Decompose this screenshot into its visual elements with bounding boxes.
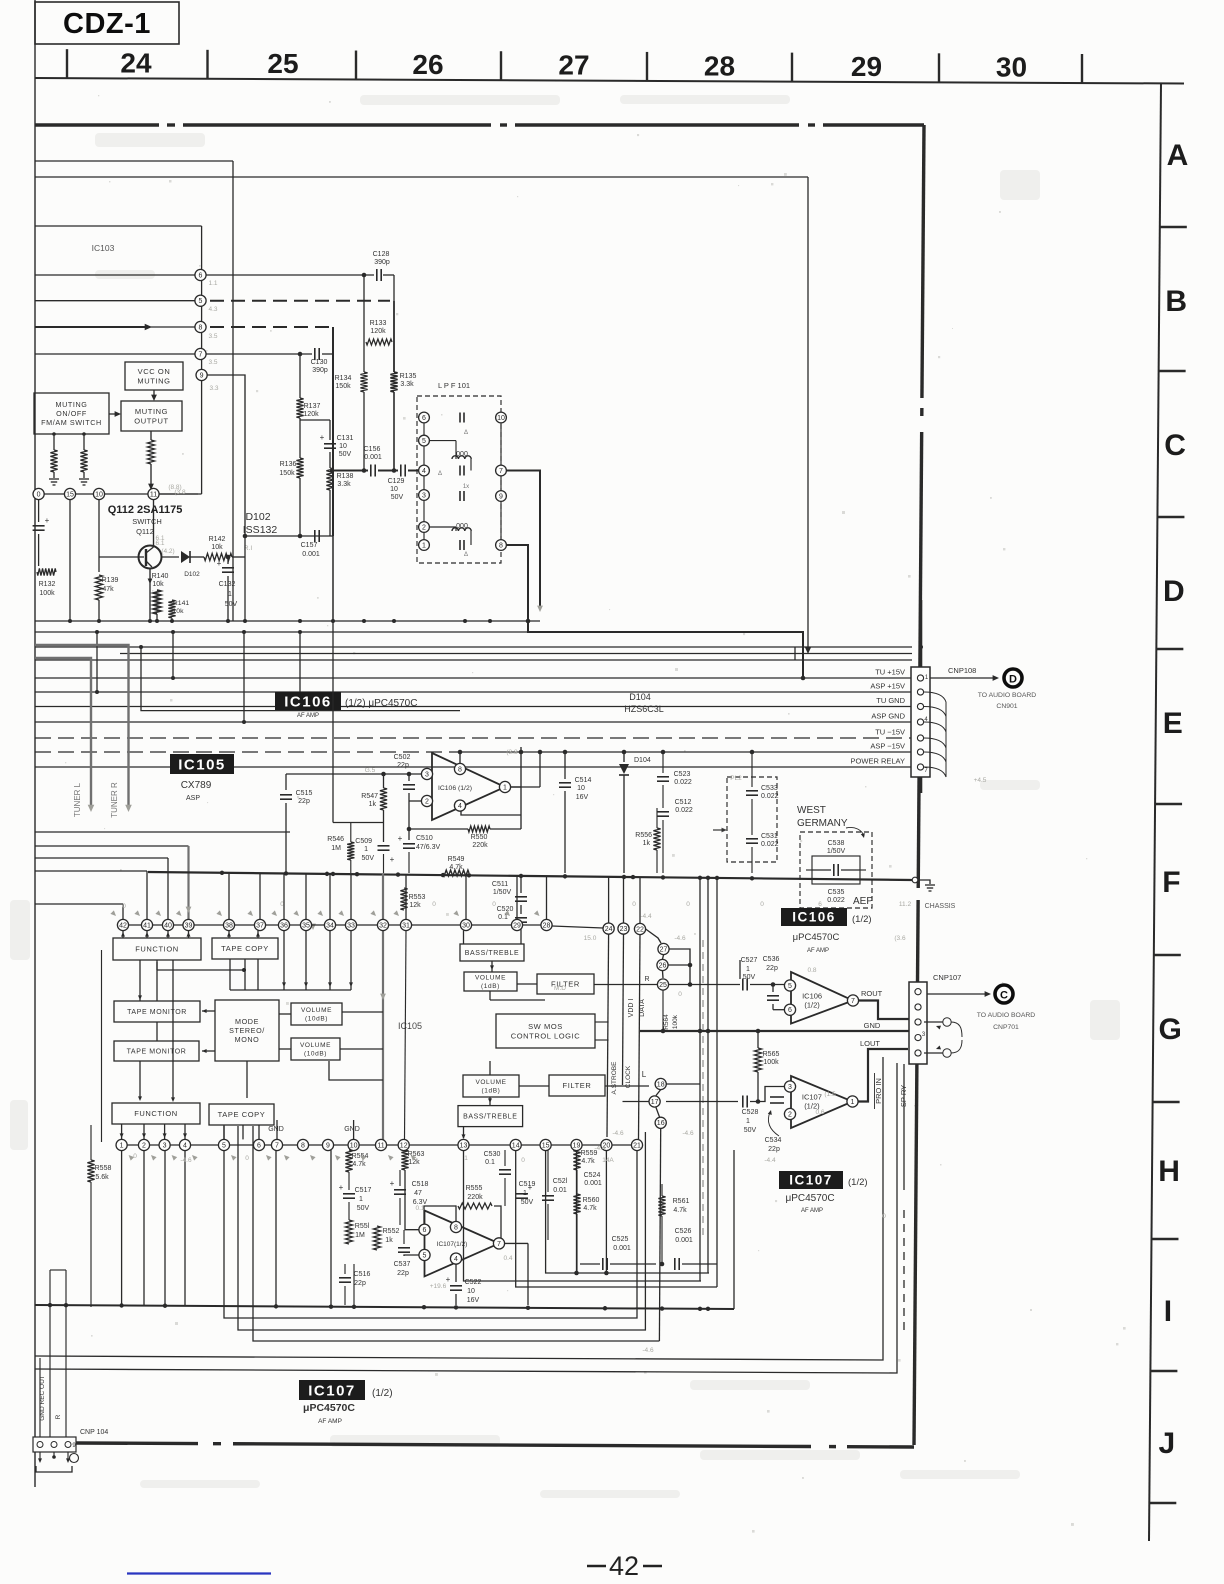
- svg-text:R140: R140: [152, 573, 169, 580]
- svg-text:GERMANY: GERMANY: [797, 818, 848, 829]
- svg-text:R556: R556: [635, 832, 652, 839]
- svg-text:0.022: 0.022: [674, 779, 692, 786]
- svg-text:27: 27: [558, 50, 589, 81]
- svg-text:FILTER: FILTER: [563, 1081, 592, 1090]
- svg-text:MODE: MODE: [235, 1017, 259, 1026]
- svg-text:TAPE MONITOR: TAPE MONITOR: [127, 1009, 187, 1016]
- svg-text:3: 3: [788, 1084, 792, 1091]
- svg-text:F: F: [1162, 866, 1180, 899]
- svg-text:50V: 50V: [744, 1127, 757, 1134]
- svg-text:24: 24: [605, 926, 613, 933]
- svg-text:R552: R552: [383, 1228, 400, 1235]
- svg-text:HZS6C3L: HZS6C3L: [624, 704, 664, 714]
- svg-text:0.01: 0.01: [553, 1187, 567, 1194]
- svg-text:42: 42: [609, 1551, 639, 1581]
- svg-text:Δ: Δ: [464, 430, 468, 436]
- svg-text:41: 41: [143, 922, 151, 929]
- svg-text:5.6k: 5.6k: [95, 1174, 109, 1181]
- svg-text:10: 10: [467, 1288, 475, 1295]
- svg-text:22p: 22p: [397, 762, 409, 769]
- svg-text:0.001: 0.001: [613, 1245, 631, 1252]
- svg-text:37: 37: [256, 922, 264, 929]
- svg-text:VOLUME: VOLUME: [301, 1007, 332, 1014]
- svg-text:C502: C502: [394, 754, 411, 761]
- svg-text:MUTING: MUTING: [56, 400, 88, 409]
- svg-text:1/50V: 1/50V: [493, 889, 512, 896]
- svg-text:50V: 50V: [225, 601, 238, 608]
- svg-text:+: +: [320, 433, 325, 442]
- svg-text:100k: 100k: [39, 590, 55, 597]
- svg-text:3: 3: [163, 1142, 167, 1149]
- svg-text:50V: 50V: [339, 451, 352, 458]
- svg-text:POWER RELAY: POWER RELAY: [851, 757, 905, 766]
- svg-text:C535: C535: [828, 889, 845, 896]
- svg-text:CHASSIS: CHASSIS: [925, 903, 956, 910]
- svg-text:G: G: [1159, 1013, 1182, 1046]
- svg-text:G.5: G.5: [365, 767, 376, 774]
- svg-text:AF AMP: AF AMP: [297, 713, 319, 719]
- svg-text:FM/AM SWITCH: FM/AM SWITCH: [41, 418, 102, 427]
- svg-text:0.022: 0.022: [827, 897, 845, 904]
- svg-text:8: 8: [458, 766, 462, 773]
- svg-text:R550: R550: [471, 834, 488, 841]
- svg-text:TU GND: TU GND: [876, 696, 905, 705]
- svg-text:TAPE COPY: TAPE COPY: [221, 944, 269, 953]
- svg-text:(1dB): (1dB): [481, 983, 500, 990]
- svg-text:C517: C517: [355, 1187, 372, 1194]
- svg-text:1x: 1x: [463, 484, 469, 490]
- svg-text:150k: 150k: [279, 470, 295, 477]
- svg-text:C537: C537: [394, 1261, 411, 1268]
- svg-text:10: 10: [497, 415, 505, 422]
- svg-text:I: I: [1164, 1295, 1172, 1328]
- svg-text:1: 1: [464, 1155, 468, 1162]
- svg-text:16V: 16V: [576, 794, 589, 801]
- svg-text:39: 39: [185, 922, 193, 929]
- svg-text:(1/2): (1/2): [804, 1001, 820, 1010]
- svg-text:9: 9: [200, 372, 204, 379]
- svg-text:22p: 22p: [766, 965, 778, 972]
- svg-text:-4.6: -4.6: [682, 1130, 694, 1137]
- svg-text:22p: 22p: [298, 798, 310, 805]
- svg-text:1: 1: [746, 966, 750, 973]
- svg-text:5: 5: [423, 1252, 427, 1259]
- svg-text:19: 19: [573, 1142, 581, 1149]
- svg-text:Δ: Δ: [438, 471, 442, 477]
- svg-text:50V: 50V: [362, 855, 375, 862]
- svg-text:(10dB): (10dB): [305, 1015, 328, 1022]
- svg-text:0.1: 0.1: [498, 914, 508, 921]
- svg-text:ON/OFF: ON/OFF: [56, 409, 87, 418]
- svg-text:C526: C526: [675, 1228, 692, 1235]
- svg-text:R138: R138: [337, 473, 354, 480]
- svg-text:1k: 1k: [385, 1237, 393, 1244]
- svg-text:22p: 22p: [768, 1146, 780, 1153]
- svg-text:SW MOS: SW MOS: [528, 1022, 563, 1031]
- svg-text:R133: R133: [370, 320, 387, 327]
- svg-text:9: 9: [326, 1142, 330, 1149]
- svg-text:3.3: 3.3: [209, 385, 218, 392]
- svg-text:ISS132: ISS132: [243, 524, 278, 536]
- svg-text:31: 31: [402, 922, 410, 929]
- svg-text:IC106: IC106: [802, 992, 822, 1001]
- svg-text:10: 10: [350, 1142, 358, 1149]
- svg-text:3.5: 3.5: [208, 333, 217, 340]
- svg-text:TAPE COPY: TAPE COPY: [218, 1110, 266, 1119]
- svg-text:7: 7: [851, 998, 855, 1005]
- svg-text:R141: R141: [173, 600, 189, 607]
- svg-text:21: 21: [633, 1142, 641, 1149]
- svg-text:AF AMP: AF AMP: [801, 1208, 823, 1214]
- svg-text:GND: GND: [344, 1126, 360, 1133]
- svg-text:40: 40: [164, 922, 172, 929]
- svg-text:FUNCTION: FUNCTION: [135, 945, 179, 954]
- svg-text:C510: C510: [416, 835, 433, 842]
- svg-text:10: 10: [339, 443, 347, 450]
- svg-text:R554: R554: [352, 1153, 369, 1160]
- svg-text:(1.5: (1.5: [824, 1091, 836, 1098]
- svg-text:C512: C512: [675, 799, 692, 806]
- svg-text:3.3k: 3.3k: [400, 381, 414, 388]
- svg-text:BASS/TREBLE: BASS/TREBLE: [465, 950, 519, 957]
- svg-text:6.1: 6.1: [155, 535, 164, 542]
- svg-text:4.7k: 4.7k: [352, 1161, 366, 1168]
- svg-text:10k: 10k: [173, 608, 185, 615]
- svg-text:VOLUME: VOLUME: [475, 1079, 506, 1086]
- svg-text:μPC4570C: μPC4570C: [785, 1193, 834, 1204]
- svg-text:5: 5: [422, 438, 426, 445]
- svg-text:-4.6: -4.6: [612, 1130, 624, 1137]
- svg-text:R135: R135: [400, 373, 417, 380]
- svg-text:(1/2): (1/2): [372, 1388, 393, 1399]
- svg-text:0: 0: [280, 901, 284, 908]
- svg-text:ROUT: ROUT: [861, 989, 883, 998]
- svg-text:C534: C534: [765, 1137, 782, 1144]
- svg-text:+: +: [398, 834, 403, 843]
- svg-text:50V: 50V: [357, 1205, 370, 1212]
- svg-text:IC105: IC105: [398, 1021, 422, 1031]
- svg-text:C516: C516: [354, 1271, 371, 1278]
- svg-text:C519: C519: [519, 1181, 536, 1188]
- svg-text:6: 6: [788, 1007, 792, 1014]
- svg-text:VDD I: VDD I: [628, 999, 635, 1018]
- svg-text:C514: C514: [575, 777, 592, 784]
- svg-text:4: 4: [458, 803, 462, 810]
- svg-text:-4.4: -4.4: [640, 913, 652, 920]
- svg-text:11: 11: [150, 491, 157, 498]
- svg-text:0: 0: [37, 491, 41, 498]
- svg-text:4.7k: 4.7k: [673, 1207, 687, 1214]
- svg-text:4.7k: 4.7k: [583, 1205, 597, 1212]
- svg-text:2: 2: [142, 1142, 146, 1149]
- svg-text:29: 29: [851, 51, 882, 82]
- svg-text:15: 15: [542, 1142, 550, 1149]
- svg-text:+4.5: +4.5: [974, 777, 987, 784]
- svg-text:C156: C156: [364, 446, 381, 453]
- svg-text:0: 0: [760, 901, 764, 908]
- svg-text:9: 9: [499, 493, 503, 500]
- svg-text:50V: 50V: [391, 494, 404, 501]
- svg-text:μPC4570C: μPC4570C: [303, 1402, 355, 1414]
- svg-text:(3.6: (3.6: [894, 935, 906, 942]
- svg-text:0.1: 0.1: [485, 1159, 495, 1166]
- svg-text:1: 1: [746, 1118, 750, 1125]
- svg-text:100k: 100k: [672, 1014, 679, 1029]
- svg-text:B: B: [1165, 285, 1187, 318]
- svg-text:1: 1: [364, 846, 368, 853]
- svg-text:14: 14: [512, 1142, 520, 1149]
- svg-text:47k: 47k: [102, 586, 114, 593]
- svg-text:Q112: Q112: [136, 527, 154, 536]
- svg-text:R558: R558: [95, 1165, 112, 1172]
- svg-text:390p: 390p: [374, 259, 390, 266]
- svg-text:R546: R546: [327, 836, 344, 843]
- svg-text:CNP701: CNP701: [993, 1024, 1019, 1031]
- svg-text:000: 000: [456, 451, 468, 458]
- svg-text:VCC ON: VCC ON: [138, 367, 171, 376]
- svg-text:CNP108: CNP108: [948, 666, 976, 675]
- svg-text:H: H: [1158, 1155, 1180, 1188]
- svg-text:15: 15: [66, 491, 74, 498]
- svg-text:C: C: [1000, 990, 1008, 1002]
- svg-text:5: 5: [199, 298, 203, 305]
- svg-text:17: 17: [651, 1099, 659, 1106]
- svg-text:(4.2): (4.2): [161, 548, 174, 555]
- svg-text:GND: GND: [268, 1126, 284, 1133]
- svg-text:TU −15V: TU −15V: [875, 728, 905, 737]
- svg-text:R55l: R55l: [355, 1223, 370, 1230]
- svg-text:-4.6: -4.6: [642, 1347, 654, 1354]
- svg-text:(1/2) μPC4570C: (1/2) μPC4570C: [345, 698, 417, 709]
- svg-text:ASP −15V: ASP −15V: [870, 742, 905, 751]
- svg-text:0.8: 0.8: [807, 967, 816, 974]
- svg-text:C130: C130: [311, 359, 328, 366]
- svg-text:+: +: [390, 855, 395, 864]
- svg-text:C129: C129: [388, 478, 405, 485]
- svg-text:CDZ-1: CDZ-1: [63, 8, 151, 40]
- svg-text:C132: C132: [219, 581, 236, 588]
- svg-text:(3.8: (3.8: [506, 749, 518, 756]
- svg-text:1/50V: 1/50V: [827, 848, 846, 855]
- svg-text:IC103: IC103: [92, 243, 115, 253]
- svg-text:C524: C524: [584, 1172, 601, 1179]
- svg-text:0.4: 0.4: [503, 1255, 512, 1262]
- svg-text:7: 7: [497, 1241, 501, 1248]
- svg-text:18: 18: [657, 1081, 665, 1088]
- svg-text:C528: C528: [742, 1109, 759, 1116]
- svg-text:C520: C520: [497, 906, 514, 913]
- svg-text:0: 0: [245, 1155, 249, 1162]
- svg-text:D102: D102: [245, 511, 270, 523]
- svg-text:TUNER L: TUNER L: [73, 782, 82, 817]
- svg-text:R547: R547: [361, 793, 378, 800]
- svg-text:0.001: 0.001: [302, 551, 320, 558]
- svg-text:1: 1: [359, 1196, 363, 1203]
- svg-text:0.022: 0.022: [675, 807, 693, 814]
- svg-text:M.D: M.D: [554, 985, 566, 992]
- svg-text:ASP GND: ASP GND: [871, 712, 905, 721]
- svg-text:L: L: [642, 1070, 647, 1079]
- svg-text:IC106 (1/2): IC106 (1/2): [438, 785, 472, 792]
- svg-text:PRO IN: PRO IN: [874, 1078, 883, 1104]
- svg-text:R553: R553: [409, 894, 426, 901]
- svg-text:μPC4570C: μPC4570C: [793, 932, 840, 943]
- svg-text:3.3k: 3.3k: [337, 481, 351, 488]
- svg-text:TO AUDIO BOARD: TO AUDIO BOARD: [978, 692, 1037, 699]
- svg-text:5: 5: [788, 983, 792, 990]
- svg-text:0.1: 0.1: [415, 1205, 424, 1212]
- svg-text:3.5: 3.5: [208, 359, 217, 366]
- svg-text:1: 1: [523, 1190, 527, 1197]
- svg-text:ASP: ASP: [186, 795, 200, 802]
- svg-text:AEP: AEP: [853, 896, 873, 907]
- svg-text:25: 25: [267, 48, 298, 79]
- svg-text:47/6.3V: 47/6.3V: [416, 844, 440, 851]
- svg-text:-4.4: -4.4: [764, 1157, 776, 1164]
- svg-text:27: 27: [660, 946, 668, 953]
- svg-text:CONTROL LOGIC: CONTROL LOGIC: [511, 1031, 581, 1040]
- svg-text:0: 0: [521, 1157, 525, 1164]
- svg-text:R563: R563: [408, 1151, 425, 1158]
- svg-text:C128: C128: [373, 251, 390, 258]
- svg-text:4.3: 4.3: [208, 306, 217, 313]
- svg-text:12k: 12k: [408, 1159, 420, 1166]
- svg-text:390p: 390p: [312, 367, 328, 374]
- svg-text:35: 35: [302, 922, 310, 929]
- svg-text:26: 26: [659, 962, 667, 969]
- svg-text:7: 7: [275, 1142, 279, 1149]
- svg-text:30: 30: [462, 922, 470, 929]
- svg-text:R132: R132: [39, 581, 56, 588]
- svg-text:D104: D104: [629, 692, 651, 702]
- svg-text:220k: 220k: [467, 1194, 483, 1201]
- svg-text:0.6: 0.6: [815, 1109, 824, 1116]
- svg-text:1k: 1k: [643, 840, 651, 847]
- svg-text:8: 8: [301, 1142, 305, 1149]
- svg-text:0: 0: [678, 991, 682, 998]
- svg-text:C522: C522: [465, 1279, 482, 1286]
- svg-text:C515: C515: [296, 790, 313, 797]
- svg-text:12k: 12k: [409, 902, 421, 909]
- svg-text:22p: 22p: [397, 1270, 409, 1277]
- svg-text:R: R: [55, 1414, 62, 1419]
- svg-text:STEREO/: STEREO/: [229, 1026, 265, 1035]
- svg-text:R555: R555: [466, 1185, 483, 1192]
- svg-text:6: 6: [199, 272, 203, 279]
- svg-text:22p: 22p: [354, 1280, 366, 1287]
- svg-text:26: 26: [412, 49, 443, 80]
- svg-text:R136: R136: [280, 461, 297, 468]
- svg-text:24: 24: [120, 47, 152, 78]
- svg-text:TUNER R: TUNER R: [110, 782, 119, 818]
- svg-text:3: 3: [422, 492, 426, 499]
- svg-text:16V: 16V: [467, 1297, 480, 1304]
- svg-text:220k: 220k: [472, 842, 488, 849]
- svg-text:C527: C527: [741, 957, 758, 964]
- svg-text:C: C: [1164, 429, 1186, 462]
- svg-text:R139: R139: [102, 577, 119, 584]
- svg-text:R137: R137: [304, 403, 321, 410]
- svg-text:D: D: [1163, 575, 1185, 608]
- svg-text:R564: R564: [663, 1014, 670, 1030]
- svg-text:1: 1: [503, 784, 507, 791]
- svg-text:22: 22: [636, 926, 644, 933]
- svg-text:28: 28: [704, 50, 735, 81]
- svg-text:IC107: IC107: [802, 1093, 822, 1102]
- svg-text:E: E: [1163, 707, 1183, 740]
- svg-text:0: 0: [882, 1213, 886, 1220]
- svg-text:IC107: IC107: [789, 1173, 833, 1188]
- svg-text:C509: C509: [355, 838, 372, 845]
- svg-text:10: 10: [390, 486, 398, 493]
- svg-text:Q112 2SA1175: Q112 2SA1175: [108, 504, 183, 516]
- svg-text:C536: C536: [763, 956, 780, 963]
- svg-text:1: 1: [228, 591, 232, 598]
- svg-text:11: 11: [377, 1142, 384, 1149]
- svg-text:+: +: [217, 559, 222, 568]
- svg-text:0.022: 0.022: [761, 841, 779, 848]
- svg-text:+: +: [339, 1183, 344, 1192]
- svg-text:FUNCTION: FUNCTION: [134, 1109, 178, 1118]
- svg-text:-4.6: -4.6: [674, 935, 686, 942]
- svg-text:C533: C533: [761, 785, 778, 792]
- svg-text:R561: R561: [673, 1198, 690, 1205]
- svg-text:12: 12: [400, 1142, 408, 1149]
- svg-text:R565: R565: [763, 1051, 780, 1058]
- svg-text:C530: C530: [484, 1151, 501, 1158]
- svg-text:D104: D104: [634, 757, 651, 764]
- svg-text:SWITCH: SWITCH: [132, 517, 162, 526]
- svg-text:4.7k: 4.7k: [581, 1158, 595, 1165]
- svg-text:MONO: MONO: [235, 1035, 260, 1044]
- svg-text:4.7k: 4.7k: [449, 864, 463, 871]
- svg-text:10k: 10k: [211, 544, 223, 551]
- svg-text:0.001: 0.001: [675, 1237, 693, 1244]
- svg-text:150k: 150k: [335, 383, 351, 390]
- svg-text:10k: 10k: [152, 581, 164, 588]
- svg-text:C538: C538: [828, 840, 845, 847]
- svg-text:CNP 104: CNP 104: [80, 1429, 108, 1436]
- svg-text:8: 8: [199, 324, 203, 331]
- svg-text:+: +: [446, 1275, 451, 1284]
- svg-text:15.0: 15.0: [584, 935, 597, 942]
- svg-text:A.STROBE: A.STROBE: [611, 1061, 618, 1095]
- svg-text:4: 4: [454, 1256, 458, 1263]
- svg-text:1: 1: [851, 1099, 855, 1106]
- svg-text:AF AMP: AF AMP: [318, 1418, 342, 1425]
- svg-text:1: 1: [422, 542, 426, 549]
- svg-text:CNP107: CNP107: [933, 973, 961, 982]
- svg-text:R142: R142: [209, 536, 226, 543]
- svg-text:29: 29: [513, 922, 521, 929]
- svg-text:+19.6: +19.6: [430, 1283, 447, 1290]
- svg-text:100k: 100k: [763, 1059, 779, 1066]
- svg-text:28: 28: [543, 922, 551, 929]
- svg-text:25: 25: [659, 982, 667, 989]
- svg-text:6: 6: [257, 1142, 261, 1149]
- svg-text:32: 32: [379, 922, 387, 929]
- svg-text:1k: 1k: [369, 801, 377, 808]
- svg-text:+: +: [390, 1179, 395, 1188]
- svg-text:GND: GND: [864, 1021, 881, 1030]
- svg-text:0: 0: [133, 1153, 137, 1160]
- svg-text:IC105: IC105: [178, 757, 226, 774]
- svg-text:7: 7: [199, 351, 203, 358]
- svg-text:0: 0: [122, 903, 126, 910]
- svg-text:AF AMP: AF AMP: [807, 948, 829, 954]
- svg-text:8: 8: [454, 1224, 458, 1231]
- svg-text:1M: 1M: [331, 845, 341, 852]
